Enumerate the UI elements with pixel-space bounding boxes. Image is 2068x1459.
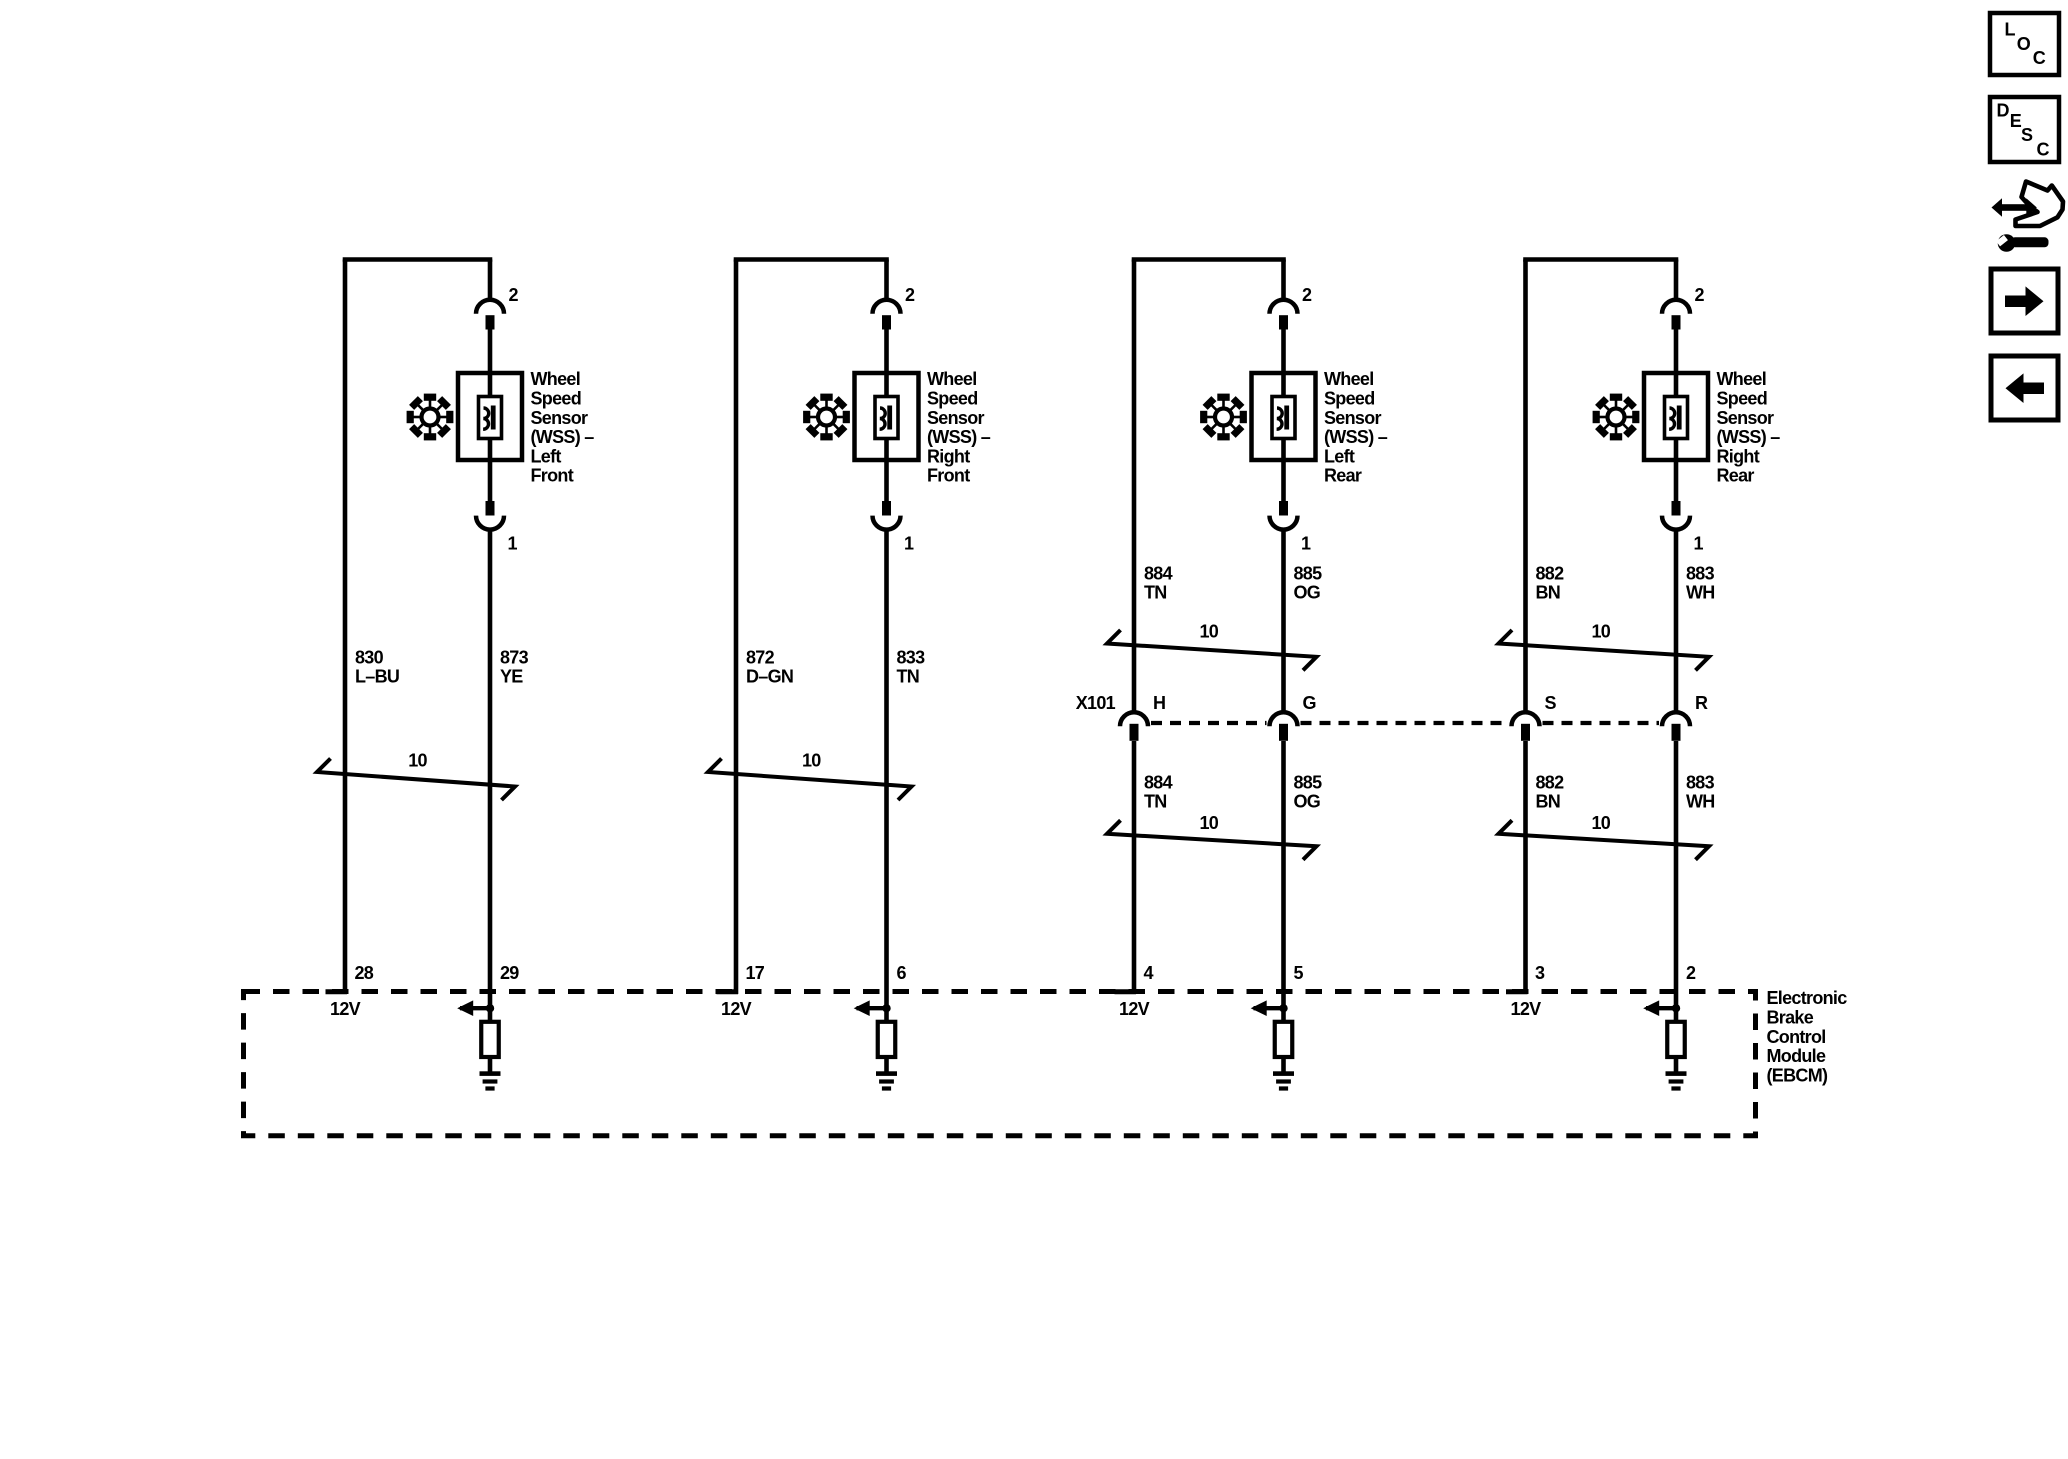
svg-text:2: 2 [1302,285,1312,305]
svg-text:6: 6 [897,963,907,983]
icon: DESC button [1990,97,2059,162]
sensor pickup element left rear [1272,397,1295,439]
twisted pair slash, 10 left front [317,750,515,800]
ground symbol pin 5 [1273,1071,1294,1090]
pin 1 terminal right rear [1672,501,1704,553]
connector half (harness side) at sensor pin 2 right front [873,300,901,314]
svg-text:3: 3 [1535,963,1545,983]
pin 2 terminal left front [486,285,519,330]
svg-text:Sensor: Sensor [531,408,589,428]
icon: connector tools (double arrow, hand, wrench) [1992,182,2064,252]
svg-text:29: 29 [500,963,519,983]
wire: right front left branch circuit 872 D–GN [734,260,739,995]
svg-text:(WSS) –: (WSS) – [531,427,595,447]
icon: LOC button [1990,13,2059,75]
EBCM input arrow node pin 5 [1251,1000,1288,1016]
label: X101 pin H [1153,693,1165,713]
wire: through sensor left rear [1281,373,1286,460]
tone wheel gear icon left rear [1200,394,1247,441]
wheel speed sensor body box left rear [1252,373,1316,460]
svg-text:2: 2 [905,285,915,305]
svg-text:2: 2 [1686,963,1696,983]
pin 1 terminal left rear [1279,501,1311,553]
pin 1 terminal right front [882,501,914,553]
svg-text:BN: BN [1536,583,1561,603]
svg-text:C: C [2037,140,2050,160]
svg-text:10: 10 [1591,813,1610,833]
EBCM pin 4 terminal stub, 12V [1115,963,1154,1019]
svg-text:S: S [2021,125,2033,145]
label: circuit 883 WH above X101 [1686,563,1715,602]
svg-text:D: D [1997,101,2010,121]
svg-text:Speed: Speed [927,389,978,409]
wire: through sensor right rear [1674,373,1679,460]
connector X101 pin S [1512,712,1540,740]
wire: sensor body to pin 1 right front [884,460,889,501]
label: circuit 833 TN [897,647,926,686]
twisted pair slash, 10 upper left rear [1107,622,1317,671]
ground symbol pin 2 [1666,1071,1687,1090]
svg-text:Electronic: Electronic [1767,988,1848,1008]
EBCM pin 29 [500,963,519,983]
svg-text:10: 10 [408,750,427,770]
wire: left rear left branch circuit 884 TN lower segment [1132,741,1137,994]
wire: resistor to ground pin 2 [1674,1057,1679,1073]
connector half (harness side) at sensor pin 1 right front [873,516,901,530]
svg-text:882: 882 [1536,772,1565,792]
EBCM pin 17 terminal stub, 12V [717,963,765,1019]
resistor inside EBCM pin 29 [481,1022,499,1057]
label: circuit 884 TN above X101 [1144,563,1173,602]
svg-text:BN: BN [1536,792,1561,812]
EBCM pin 5 [1294,963,1304,983]
svg-text:1: 1 [508,533,518,553]
svg-text:OG: OG [1294,583,1321,603]
svg-text:Rear: Rear [1324,466,1362,486]
label: circuit 830 L–BU [355,647,399,686]
pin 2 terminal right front [882,285,915,330]
pin 2 terminal right rear [1672,285,1705,330]
icon: back arrow button [1991,356,2058,420]
svg-text:885: 885 [1294,772,1323,792]
EBCM pin 3 terminal stub, 12V [1506,963,1545,1019]
svg-text:885: 885 [1294,563,1323,583]
label: X101 [1076,693,1116,713]
svg-text:Sensor: Sensor [1717,408,1775,428]
label: X101 pin G [1303,693,1316,713]
wire: right rear right branch circuit 883 WH upper segment [1674,530,1679,713]
connector half (harness side) at sensor pin 1 left front [476,516,504,530]
EBCM input arrow node pin 29 [457,1000,494,1016]
wire: right rear left branch circuit 882 BN upper segment [1523,260,1528,713]
wire: left front left branch circuit 830 L–BU [343,260,348,995]
connector half (harness side) at sensor pin 2 left rear [1270,300,1298,314]
svg-text:C: C [2033,48,2046,68]
svg-text:Left: Left [531,446,562,466]
node X101 in-line connector dashed line [1151,721,1659,725]
sensor pickup element left front [479,397,502,439]
wire: sensor body to pin 1 left front [488,460,493,501]
svg-text:WH: WH [1686,792,1715,812]
svg-text:Module: Module [1767,1046,1826,1066]
svg-text:Brake: Brake [1767,1008,1814,1028]
svg-text:10: 10 [1591,622,1610,642]
connector half (harness side) at sensor pin 2 left front [476,300,504,314]
svg-text:12V: 12V [330,999,361,1019]
svg-text:2: 2 [509,285,519,305]
pin 1 terminal left front [486,501,518,553]
svg-text:830: 830 [355,647,384,667]
wire: left rear right branch to sensor pin 2 [1281,260,1286,302]
svg-text:4: 4 [1144,963,1154,983]
pin 2 terminal left rear [1279,285,1312,330]
sensor pickup element right rear [1665,397,1688,439]
svg-text:E: E [2010,111,2022,131]
connector X101 pin R [1662,712,1690,740]
icon: forward arrow button [1991,269,2058,333]
svg-text:Front: Front [531,466,574,486]
label: Wheel Speed Sensor (WSS) right rear [1717,369,1781,486]
twisted pair slash, 10 lower left rear [1107,813,1317,860]
resistor inside EBCM pin 6 [878,1022,896,1057]
svg-text:TN: TN [897,667,920,687]
svg-text:12V: 12V [1119,999,1150,1019]
EBCM pin 28 terminal stub, 12V [326,963,374,1019]
svg-text:R: R [1695,693,1708,713]
connector X101 pin G [1270,712,1298,740]
svg-text:833: 833 [897,647,926,667]
svg-text:17: 17 [746,963,765,983]
svg-text:Rear: Rear [1717,466,1755,486]
EBCM input arrow node pin 2 [1643,1000,1680,1016]
wire: top loop right rear [1523,257,1678,262]
svg-text:873: 873 [500,647,529,667]
wire: left rear right branch circuit 885 OG upper segment [1281,530,1286,713]
wire: sensor body to pin 1 right rear [1674,460,1679,501]
label: Electronic Brake Control Module (EBCM) [1767,988,1848,1085]
svg-text:OG: OG [1294,792,1321,812]
svg-text:884: 884 [1144,563,1173,583]
svg-text:Left: Left [1324,446,1355,466]
svg-text:Front: Front [927,466,970,486]
svg-text:883: 883 [1686,772,1715,792]
svg-text:882: 882 [1536,563,1565,583]
ground symbol pin 29 [480,1071,501,1090]
label: circuit 882 BN below X101 [1536,772,1565,811]
label: Wheel Speed Sensor (WSS) left front [531,369,595,486]
twisted pair slash, 10 upper right rear [1499,622,1710,671]
svg-text:Right: Right [1717,446,1760,466]
wire: through sensor right front [884,373,889,460]
svg-text:(WSS) –: (WSS) – [927,427,991,447]
EBCM pin 6 [897,963,907,983]
svg-text:(WSS) –: (WSS) – [1717,427,1781,447]
svg-text:Wheel: Wheel [1324,369,1374,389]
label: circuit 885 OG above X101 [1294,563,1323,602]
wire: right front right branch circuit 833 TN [884,530,889,1022]
wheel speed sensor body box right rear [1644,373,1708,460]
svg-text:10: 10 [1199,622,1218,642]
connector half (harness side) at sensor pin 1 left rear [1270,516,1298,530]
svg-text:L–BU: L–BU [355,667,399,687]
svg-text:10: 10 [802,750,821,770]
Electronic Brake Control Module (EBCM) dashed box [244,992,1756,1136]
svg-text:Control: Control [1767,1027,1826,1047]
twisted pair slash, 10 lower right rear [1499,813,1710,860]
svg-text:1: 1 [904,533,914,553]
svg-text:H: H [1153,693,1165,713]
svg-text:WH: WH [1686,583,1715,603]
svg-text:12V: 12V [721,999,752,1019]
svg-text:O: O [2017,34,2031,54]
wire: right rear left branch circuit 882 BN lower segment [1523,741,1528,994]
svg-text:1: 1 [1301,533,1311,553]
wire: sensor body to pin 1 left rear [1281,460,1286,501]
wire: left rear left branch circuit 884 TN upper segment [1132,260,1137,713]
connector half (harness side) at sensor pin 1 right rear [1662,516,1690,530]
resistor inside EBCM pin 2 [1667,1022,1685,1057]
wire: left front right branch to sensor pin 2 [488,260,493,302]
wire: resistor to ground pin 5 [1281,1057,1286,1073]
svg-text:884: 884 [1144,772,1173,792]
svg-text:Speed: Speed [531,389,582,409]
wire: right rear right branch circuit 883 WH lower segment [1674,741,1679,1022]
svg-text:Wheel: Wheel [531,369,581,389]
svg-text:Speed: Speed [1717,389,1768,409]
wheel speed sensor body box left front [458,373,522,460]
label: X101 pin R [1695,693,1708,713]
svg-text:TN: TN [1144,792,1167,812]
svg-text:28: 28 [355,963,374,983]
svg-text:L: L [2005,19,2016,39]
svg-text:TN: TN [1144,583,1167,603]
wire: pin 2 to sensor body right rear [1674,330,1679,374]
wire: left rear right branch circuit 885 OG lower segment [1281,741,1286,1022]
wire: top loop left rear [1132,257,1286,262]
svg-text:X101: X101 [1076,693,1116,713]
wire: top loop left front [343,257,493,262]
svg-text:Speed: Speed [1324,389,1375,409]
svg-text:872: 872 [746,647,775,667]
svg-text:YE: YE [500,667,523,687]
svg-text:10: 10 [1199,813,1218,833]
twisted pair slash, 10 right front [708,750,912,800]
svg-text:Wheel: Wheel [927,369,977,389]
wire: pin 2 to sensor body left rear [1281,330,1286,374]
ground symbol pin 6 [876,1071,897,1090]
wire: through sensor left front [488,373,493,460]
EBCM pin 2 [1686,963,1696,983]
wire: resistor to ground pin 6 [884,1057,889,1073]
label: circuit 873 YE [500,647,529,686]
svg-text:S: S [1545,693,1557,713]
wire: pin 2 to sensor body left front [488,330,493,374]
resistor inside EBCM pin 5 [1275,1022,1293,1057]
wheel speed sensor body box right front [855,373,919,460]
label: circuit 872 D–GN [746,647,793,686]
wire: top loop right front [734,257,889,262]
label: circuit 885 OG below X101 [1294,772,1323,811]
svg-text:G: G [1303,693,1316,713]
svg-text:1: 1 [1694,533,1704,553]
svg-text:2: 2 [1695,285,1705,305]
tone wheel gear icon right front [803,394,850,441]
label: X101 pin S [1545,693,1557,713]
svg-text:12V: 12V [1511,999,1542,1019]
sensor pickup element right front [875,397,898,439]
svg-text:5: 5 [1294,963,1304,983]
wire: pin 2 to sensor body right front [884,330,889,374]
svg-text:Right: Right [927,446,970,466]
label: circuit 884 TN below X101 [1144,772,1173,811]
svg-text:(WSS) –: (WSS) – [1324,427,1388,447]
wire: left front right branch circuit 873 YE [488,530,493,1022]
label: circuit 883 WH below X101 [1686,772,1715,811]
svg-text:Sensor: Sensor [927,408,985,428]
label: Wheel Speed Sensor (WSS) right front [927,369,991,486]
tone wheel gear icon right rear [1593,394,1640,441]
svg-text:D–GN: D–GN [746,667,793,687]
svg-text:(EBCM): (EBCM) [1767,1065,1828,1085]
wire: right rear right branch to sensor pin 2 [1674,260,1679,302]
wire: resistor to ground pin 29 [488,1057,493,1073]
svg-text:Wheel: Wheel [1717,369,1767,389]
tone wheel gear icon left front [407,394,454,441]
wire: right front right branch to sensor pin 2 [884,260,889,302]
svg-text:Sensor: Sensor [1324,408,1382,428]
label: Wheel Speed Sensor (WSS) left rear [1324,369,1388,486]
label: circuit 882 BN above X101 [1536,563,1565,602]
connector X101 pin H [1120,712,1148,740]
EBCM input arrow node pin 6 [854,1000,891,1016]
svg-text:883: 883 [1686,563,1715,583]
connector half (harness side) at sensor pin 2 right rear [1662,300,1690,314]
